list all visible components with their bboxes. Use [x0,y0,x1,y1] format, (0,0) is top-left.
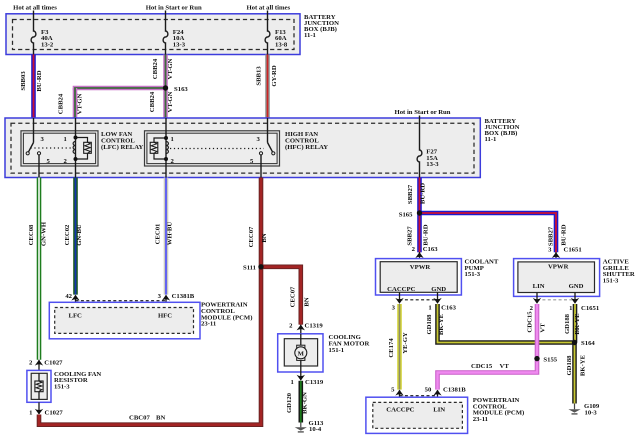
svg-text:1: 1 [64,136,67,143]
svg-text:1: 1 [290,379,293,386]
connector C1381B pins 5 and 50 (PCM2 top) [391,387,466,403]
label BJB top right [304,14,339,39]
svg-text:151-3: 151-3 [603,277,619,284]
wire CE174 YE-GY [388,304,409,390]
connector C1027 pin 1 (resistor bottom) [29,402,63,416]
ground G113 [295,420,324,433]
svg-text:1: 1 [569,305,572,312]
svg-text:LIN: LIN [433,407,445,414]
svg-text:10-4: 10-4 [309,426,322,433]
svg-text:VPWR: VPWR [410,264,431,271]
svg-text:SBB27: SBB27 [407,184,414,204]
svg-text:GY-RD: GY-RD [271,65,278,86]
svg-text:1: 1 [29,410,32,417]
label POWERTRAIN CONTROL MODULE (PCM) 23-11 [201,302,252,328]
svg-text:CEC07: CEC07 [290,286,297,307]
svg-text:VPWR: VPWR [548,263,569,270]
node S165 [399,210,422,218]
svg-text:C1651: C1651 [564,246,582,253]
fuse F27 15A [417,116,439,178]
svg-text:CEC08: CEC08 [28,224,35,245]
connector C1381B pins 42 and 3 (PCM top) [65,293,194,307]
svg-text:BN: BN [261,233,268,242]
svg-text:BN: BN [156,414,165,421]
wire GD188 BK-YE below S164 [566,343,587,404]
svg-text:1: 1 [171,136,174,143]
powertrain control module PCM box 1 [49,302,200,339]
svg-text:C163: C163 [441,305,457,312]
svg-text:SBB27: SBB27 [548,226,555,246]
svg-text:CDC15: CDC15 [526,311,533,333]
wire stub F24 top [165,11,167,15]
connector C1651 pins 2 and 1 (shutter bottom) [530,293,600,313]
wire SBB27 BU-RD from F27 [407,178,427,214]
wire CEC01 WH-BU [155,178,174,295]
label COOLANT PUMP 151-3 [465,259,499,279]
svg-text:C1381B: C1381B [443,387,466,394]
label LOW FAN CONTROL (LFC) RELAY [101,131,143,151]
svg-text:LIN: LIN [533,283,545,290]
svg-text:S111: S111 [243,265,256,272]
wire SBB13 GY-RD [256,55,279,119]
svg-text:BU-RD: BU-RD [423,224,430,245]
wire CEC07 BN branch to motor [261,267,311,325]
motor M symbol [295,334,307,372]
svg-text:1: 1 [428,305,431,312]
svg-text:C1319: C1319 [305,323,324,330]
fuse F3 40A [31,14,54,55]
relay LFC box [21,131,98,166]
svg-text:CBB24: CBB24 [149,91,156,112]
wire CEC08 GN-WH [28,178,48,360]
wire GD120 BK-GN [286,381,309,423]
svg-text:VT-GN: VT-GN [167,91,174,112]
node S163 [163,85,189,93]
svg-text:Hot in Start or Run: Hot in Start or Run [146,4,202,11]
svg-text:151-1: 151-1 [329,347,345,354]
relay coil HFC [150,118,174,178]
relay HFC box [145,131,280,166]
fuse F13 60A [265,14,288,55]
connector C163 pin 2 (pump top) [412,246,439,262]
connector C163 pins 3 and 1 (pump bottom) [392,292,457,311]
svg-text:CBC07: CBC07 [129,414,150,421]
svg-text:CBB24: CBB24 [152,58,159,79]
svg-text:C1381B: C1381B [172,293,195,300]
svg-text:42: 42 [65,293,72,300]
svg-text:BN: BN [304,297,311,306]
wire LFC pin3 feed [33,118,35,143]
svg-text:BU-RD: BU-RD [561,224,568,245]
svg-text:GND: GND [569,283,584,290]
wire CEC07 BN to S111 [248,178,268,267]
svg-text:CEC07: CEC07 [248,226,255,247]
svg-text:S155: S155 [543,357,557,364]
svg-text:CEC01: CEC01 [155,224,162,245]
relay coil LFC [64,118,92,178]
wire stub F3 top [33,11,35,15]
label COOLING FAN RESISTOR 151-3 [54,371,101,391]
svg-text:13-3: 13-3 [426,161,439,168]
connector C1027 pin 2 (resistor top) [29,360,63,371]
svg-text:13-3: 13-3 [173,42,186,49]
svg-text:VT-GN: VT-GN [77,93,84,114]
svg-text:GND: GND [431,286,446,293]
svg-text:13-2: 13-2 [41,42,54,49]
battery junction box BJB top [6,14,300,55]
switch HFC [250,136,275,178]
svg-text:SBB03: SBB03 [20,71,27,91]
coolant pump box [376,259,462,295]
svg-text:HFC: HFC [158,312,172,319]
fuse F24 10A [163,14,186,55]
svg-text:11-1: 11-1 [304,32,316,39]
active grille shutter box [514,259,600,297]
svg-text:GD120: GD120 [286,392,293,413]
connector C1319 pin 2 (motor top) [289,323,323,334]
svg-text:VT: VT [540,323,547,333]
svg-text:10-3: 10-3 [585,410,598,417]
svg-text:CBB24: CBB24 [58,93,65,114]
svg-text:(LFC) RELAY: (LFC) RELAY [101,144,143,151]
svg-text:GN-BU: GN-BU [76,224,83,246]
label POWERTRAIN CONTROL MODULE (PCM) 23-11 (2) [473,397,524,423]
dotted actuation line LFC [31,147,73,149]
cooling fan motor box [278,334,323,372]
svg-text:CDC15: CDC15 [471,363,493,370]
svg-text:Hot at all times: Hot at all times [246,4,290,11]
svg-text:M: M [298,351,305,358]
svg-text:11-1: 11-1 [485,136,497,143]
wire stub F13 top [267,11,269,15]
wire HFC pin3 feed [267,118,269,143]
svg-text:GN-WH: GN-WH [41,221,48,246]
wire CEC02 GN-BU [64,178,83,295]
label COOLING FAN MOTOR 151-1 [329,334,370,354]
svg-text:C1651: C1651 [581,305,599,312]
svg-text:YE-GY: YE-GY [402,332,409,354]
svg-text:151-3: 151-3 [54,383,70,390]
svg-text:CACCPC: CACCPC [386,407,414,414]
svg-text:GD188: GD188 [566,355,573,376]
svg-text:GD188: GD188 [564,313,571,334]
wire SBB03 BU-RD [20,55,43,119]
wire CDC15 VT from shutter LIN [526,304,546,359]
svg-text:S165: S165 [399,212,413,219]
wire CBB24 VT-GN upper [152,55,174,89]
label ACTIVE GRILLE SHUTTER 151-3 [603,259,635,285]
svg-text:C163: C163 [423,246,439,253]
wire GD188 BK-YE from pump GND [426,304,575,343]
svg-text:GD188: GD188 [426,314,433,335]
svg-text:151-3: 151-3 [465,271,481,278]
svg-text:23-11: 23-11 [473,416,488,423]
switch LFC [26,136,50,178]
svg-text:(HFC) RELAY: (HFC) RELAY [285,144,328,151]
svg-text:WH-BU: WH-BU [167,222,174,246]
svg-text:CACCPC: CACCPC [387,286,415,293]
svg-text:SBB13: SBB13 [256,66,263,86]
wire VT-GN horizontal branch [75,88,166,90]
dotted actuation line HFC [170,148,264,150]
wire SBB27 BU-RD to pump [407,213,430,252]
svg-text:Hot in Start or Run: Hot in Start or Run [395,109,451,116]
svg-text:SBB27: SBB27 [407,226,414,246]
wire GD188 BK-YE from shutter GND [564,304,581,343]
svg-text:BU-RD: BU-RD [420,183,427,204]
connector C1319 pin 1 (motor bottom) [290,372,323,386]
svg-text:LFC: LFC [69,312,83,319]
svg-text:BK-GN: BK-GN [302,392,309,414]
cooling fan resistor box [27,370,51,402]
wire CBB24 VT-GN below S163 [149,88,174,118]
svg-text:CEC02: CEC02 [64,224,71,245]
wire BU-RD horizontal S165 branch [420,213,568,252]
node S164 [572,340,596,347]
svg-text:23-11: 23-11 [201,321,216,328]
svg-text:C1319: C1319 [305,379,324,386]
svg-text:BU-RD: BU-RD [36,70,43,91]
wire CBC07 BN main loop S111 to resistor [39,267,261,425]
svg-text:VT-GN: VT-GN [167,58,174,79]
svg-text:13-8: 13-8 [275,42,288,49]
svg-text:CE174: CE174 [388,338,395,358]
svg-text:C1027: C1027 [45,410,64,417]
node S111 [243,264,264,271]
svg-text:S163: S163 [174,86,188,93]
svg-text:50: 50 [425,387,432,394]
connector C1651 pin 3 (shutter top) [548,246,582,262]
svg-text:BK-YE: BK-YE [580,354,587,376]
svg-text:S164: S164 [581,340,595,347]
battery junction box BJB relays [5,118,480,178]
label BJB relays right [485,118,520,143]
resistor symbol [35,373,43,399]
label HIGH FAN CONTROL (HFC) RELAY [285,131,328,151]
svg-text:Hot at all times: Hot at all times [13,4,57,11]
wire CDC15 VT from S155 to PCM [438,359,538,390]
ground G109 [568,403,599,417]
node S155 [534,356,558,364]
svg-text:VT: VT [500,363,510,370]
wire CBB24 VT-GN left drop [58,88,84,118]
svg-text:BK-YE: BK-YE [574,313,581,335]
powertrain control module PCM box 2 [366,397,468,433]
svg-text:BK-YE: BK-YE [438,313,445,335]
svg-text:C1027: C1027 [44,360,63,367]
